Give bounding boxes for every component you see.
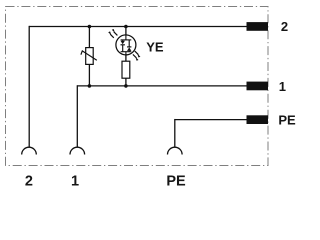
svg-text:YE: YE — [146, 40, 164, 55]
LED light arrows lower-right — [133, 51, 141, 61]
terminal label 2 — [281, 19, 288, 34]
wire: net 2 left vertical to pin 2 — [28, 26, 30, 147]
pin label PE — [166, 173, 186, 189]
terminal block 2 — [247, 22, 269, 31]
LED light arrows upper-left — [108, 29, 117, 38]
wire: LED branch upper — [125, 27, 127, 36]
terminal label 1 — [279, 79, 286, 94]
wire: PE horizontal — [175, 119, 247, 121]
svg-text:2: 2 — [281, 19, 288, 34]
terminal block 1 — [247, 82, 269, 91]
wire: net 1 horizontal — [77, 85, 246, 87]
junction dot at varistor bottom — [88, 84, 92, 88]
pin label 2 — [25, 173, 33, 189]
wire: resistor to net 1 — [125, 78, 127, 86]
terminal label PE — [278, 113, 296, 128]
pin label 1 — [71, 173, 79, 189]
wire: net 2 top horizontal — [29, 26, 246, 28]
wire: varistor branch lower — [88, 64, 90, 86]
wire: PE vertical to pin PE — [174, 119, 176, 147]
svg-text:2: 2 — [25, 173, 33, 189]
varistor (suppressor) body — [81, 48, 97, 65]
junction dot at LED top — [124, 25, 128, 29]
terminal block PE — [247, 115, 269, 124]
wire: net 1 vertical to pin 1 — [76, 85, 78, 147]
wire: varistor branch upper — [88, 27, 90, 48]
svg-text:1: 1 — [279, 79, 286, 94]
LED colour label YE — [146, 40, 164, 55]
pin 1 contact (socket arc) — [70, 147, 85, 154]
junction dot at varistor top — [88, 25, 92, 29]
pin 2 contact (socket arc) — [22, 147, 37, 154]
svg-text:1: 1 — [71, 173, 79, 189]
svg-text:PE: PE — [166, 173, 186, 189]
resistor (series) — [122, 61, 130, 78]
junction dot at resistor bottom — [124, 84, 128, 88]
svg-text:PE: PE — [278, 113, 296, 128]
pin PE contact (socket arc) — [168, 147, 183, 154]
LED U1 (dual anti-parallel) circle — [116, 35, 136, 55]
connector housing outline (dash-dot boundary) — [6, 7, 269, 166]
wire: LED to resistor — [125, 55, 127, 61]
